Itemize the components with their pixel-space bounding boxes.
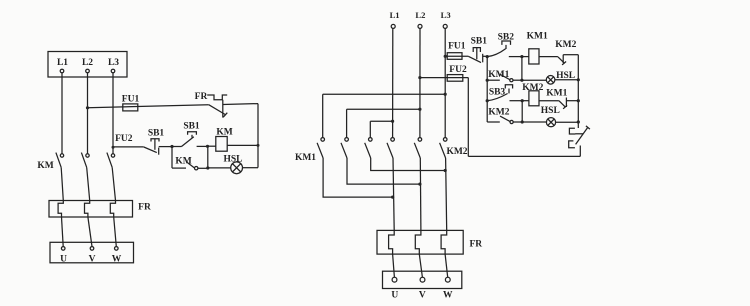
- wire KM2 col1 to FR: [393, 158, 394, 230]
- wire FR to motor U (right): [393, 254, 395, 277]
- contact KM1 auxiliary NO (hold): [487, 70, 522, 82]
- pushbutton SB1 NC stop (left): [144, 129, 165, 155]
- thermal relay FR box (right): [377, 230, 463, 254]
- node rail-rung2: [577, 99, 580, 102]
- svg-text:L1: L1: [57, 58, 68, 68]
- wire FR to motor W (right): [445, 254, 448, 277]
- node L1 feeder3: [391, 120, 394, 123]
- wire KM1 col2 to merge2: [347, 158, 420, 184]
- svg-text:L2: L2: [82, 58, 93, 68]
- wire L3 phase (left): [112, 73, 114, 154]
- fuse FU1 (left): [122, 95, 140, 111]
- wire KM1 to FR heater 1: [61, 168, 63, 201]
- node merge2: [418, 183, 421, 186]
- wire aux node up to coil node: [207, 146, 209, 168]
- node A rung1: [486, 55, 489, 58]
- node L3-FU1: [444, 55, 447, 58]
- wire KM coil to rail: [227, 144, 258, 146]
- contactor KM2 main contact 1: [387, 138, 394, 158]
- svg-text:W: W: [112, 254, 122, 264]
- node B rung1: [520, 55, 523, 58]
- svg-text:SB3: SB3: [489, 88, 506, 98]
- svg-text:HSL: HSL: [541, 106, 560, 116]
- node coil-rail: [257, 144, 260, 147]
- wire feeder L1 to KM1 col3: [370, 121, 392, 137]
- wire to lamp HSL (left): [208, 167, 231, 169]
- wire KM1 col1 to merge1: [323, 158, 393, 197]
- pushbutton SB1 NC stop (right): [468, 37, 487, 63]
- svg-text:KM2: KM2: [555, 40, 576, 50]
- svg-text:FU1: FU1: [448, 42, 466, 52]
- node rail-lamp1: [577, 78, 580, 81]
- svg-text:L2: L2: [415, 10, 425, 20]
- node B2 rung2: [521, 99, 524, 102]
- coil KM (left): [216, 128, 233, 152]
- contactor KM1 main contact 3: [365, 138, 372, 158]
- node start-branch left: [170, 145, 173, 148]
- wire node B to KM1 coil: [522, 56, 529, 58]
- FR heater element 1 (right): [389, 230, 395, 254]
- svg-text:KM1: KM1: [527, 32, 548, 42]
- terminal L3 (right): [441, 10, 451, 28]
- svg-text:SB2: SB2: [498, 32, 515, 42]
- terminal L2 (right): [415, 10, 425, 28]
- wire to lamp HSL2: [522, 121, 546, 123]
- wire FR to motor U: [62, 217, 64, 247]
- node merge1: [391, 196, 394, 199]
- wire KM1 coil to KM2 interlock: [539, 56, 558, 58]
- terminal W (left): [112, 247, 122, 265]
- terminal U (right): [391, 277, 398, 300]
- wire L3 phase (right): [444, 29, 446, 138]
- thermal contact FR NC (left control): [195, 92, 228, 118]
- svg-text:FR: FR: [138, 203, 151, 213]
- wire node B2 to KM2 coil: [522, 100, 529, 102]
- lamp HSL2: [541, 106, 560, 127]
- terminal U (left): [60, 247, 67, 265]
- wire lamp1 to rail: [555, 79, 578, 81]
- terminal L2 (left): [82, 58, 93, 73]
- wire KM2 coil to KM1 interlock: [539, 100, 559, 102]
- svg-text:KM2: KM2: [488, 108, 509, 118]
- terminal L3 (left): [108, 58, 119, 73]
- wire L2 to control (through FU1): [88, 105, 209, 108]
- node L2 feeder2: [418, 108, 421, 111]
- svg-text:SB1: SB1: [148, 129, 165, 139]
- wire lamp to rail (left): [243, 167, 259, 169]
- FR heater element 1: [58, 201, 63, 218]
- node bus-aux1: [486, 79, 489, 82]
- wire FR to motor V: [88, 217, 92, 247]
- motor terminal box (left): [50, 242, 134, 262]
- node L2-FU2: [418, 76, 421, 79]
- terminal V (right): [419, 277, 426, 300]
- FR heater element 2: [85, 201, 90, 218]
- contactor KM1 main contact 2: [341, 138, 348, 158]
- motor terminal box (right): [383, 271, 462, 288]
- wire to lamp HSL1: [522, 79, 546, 81]
- terminal L1 (left): [57, 58, 68, 73]
- supply terminal box (left): [48, 52, 127, 78]
- svg-text:V: V: [89, 254, 96, 264]
- contactor KM1 main contact 1: [317, 138, 324, 158]
- contactor KM main contact 2: [81, 153, 89, 168]
- svg-text:KM1: KM1: [488, 70, 509, 80]
- wire feeder L2 to KM1 col2: [347, 109, 420, 137]
- wire L3 to SB1 (through FU1): [445, 55, 468, 57]
- svg-text:V: V: [419, 291, 426, 301]
- svg-text:HSL: HSL: [223, 154, 242, 164]
- wire right rail (left control): [257, 104, 259, 168]
- wire L2 to return (through FU2): [420, 77, 468, 79]
- svg-text:FR: FR: [195, 92, 208, 102]
- wire KM2 col2 to FR: [419, 158, 422, 230]
- FR heater element 2 (right): [415, 230, 421, 254]
- wire L2 phase (right): [419, 29, 421, 138]
- wire start node down (aux branch): [171, 147, 173, 169]
- svg-text:SB1: SB1: [183, 122, 200, 132]
- FR heater element 3: [110, 201, 115, 218]
- pushbutton SB2 NO start forward: [487, 32, 522, 56]
- node rail-lamp2: [577, 120, 580, 123]
- wire L1 phase (right): [392, 29, 394, 138]
- svg-text:U: U: [391, 291, 398, 301]
- terminal L1 (right): [390, 10, 400, 28]
- svg-text:U: U: [60, 254, 67, 264]
- node L3 control tap: [112, 146, 115, 149]
- wire feeder L3 to KM1 col1: [323, 94, 446, 137]
- contactor KM main contact 1: [56, 153, 64, 168]
- wire aux2 riser: [521, 101, 523, 122]
- node L3 feeder1: [444, 93, 447, 96]
- wire SB1 stop to node: [159, 146, 172, 148]
- svg-text:FU2: FU2: [449, 65, 467, 75]
- contactor KM2 main contact 2: [414, 138, 421, 158]
- node coil-branch left: [206, 145, 209, 148]
- wire KM2 col3 to FR: [446, 158, 447, 230]
- fuse FU1 (right): [447, 42, 466, 60]
- thermal relay FR box (left): [49, 201, 133, 218]
- wire right rail (right control): [577, 55, 579, 128]
- wire FR contact to right rail (left): [223, 103, 258, 106]
- node aux1-right: [520, 79, 523, 82]
- wire lamp2 to rail: [556, 121, 579, 123]
- pushbutton SB1 NO start (left): [172, 122, 208, 147]
- svg-text:L3: L3: [441, 10, 451, 20]
- wire control return bottom: [468, 155, 580, 157]
- wire KM1 col3 to merge3: [371, 158, 446, 171]
- wire node to KM coil: [208, 145, 216, 147]
- svg-text:L1: L1: [390, 10, 400, 20]
- node aux-lamp junction: [206, 166, 209, 169]
- wire KM2 to FR heater 2: [87, 168, 90, 201]
- svg-text:KM2: KM2: [522, 83, 543, 93]
- node aux2-right: [521, 120, 524, 123]
- wire L3 tap to SB1 stop: [113, 146, 144, 148]
- contactor KM2 main contact 3: [440, 138, 447, 158]
- lamp HSL (left): [223, 154, 242, 173]
- node bus-rung2: [486, 99, 489, 102]
- svg-text:W: W: [443, 291, 453, 301]
- svg-text:SB1: SB1: [471, 37, 488, 47]
- wire aux1 riser: [521, 57, 523, 81]
- contact KM1 NC interlock (rung2): [546, 88, 578, 108]
- fuse FU2 (right): [447, 65, 467, 81]
- wire FR to motor W: [114, 217, 117, 247]
- node merge3: [444, 169, 447, 172]
- thermal contact FR NC (right control): [569, 126, 590, 156]
- svg-text:KM1: KM1: [295, 153, 316, 163]
- terminal V (left): [89, 247, 96, 265]
- lamp HSL1: [546, 71, 575, 84]
- wire L2 phase (left): [87, 73, 89, 154]
- node L2-FU1 junction: [86, 106, 89, 109]
- FR heater element 3 (right): [441, 230, 447, 254]
- svg-text:KM2: KM2: [446, 147, 467, 157]
- terminal W (right): [443, 277, 453, 300]
- svg-text:FU2: FU2: [115, 134, 133, 144]
- wire left bus (right control): [486, 57, 488, 122]
- wire KM3 to FR heater 3: [112, 168, 115, 201]
- contactor KM main contact 3: [107, 153, 115, 168]
- svg-text:KM: KM: [37, 161, 53, 171]
- svg-text:FR: FR: [469, 239, 482, 249]
- svg-text:L3: L3: [108, 58, 119, 68]
- contact KM2 NC interlock (rung1): [555, 40, 578, 65]
- svg-text:KM1: KM1: [546, 88, 567, 98]
- wire L1 phase (left): [61, 73, 63, 154]
- svg-text:KM: KM: [216, 128, 232, 138]
- coil KM2: [522, 83, 543, 106]
- contact KM auxiliary NO (left): [172, 157, 208, 170]
- svg-text:KM: KM: [175, 157, 191, 167]
- svg-text:FU1: FU1: [122, 95, 140, 105]
- contact KM2 auxiliary NO (hold): [487, 108, 522, 124]
- wire FR to motor V (right): [419, 254, 422, 277]
- wire FU2 return drop: [467, 78, 469, 157]
- pushbutton SB3 NO start reverse: [487, 85, 522, 101]
- coil KM1: [527, 32, 548, 65]
